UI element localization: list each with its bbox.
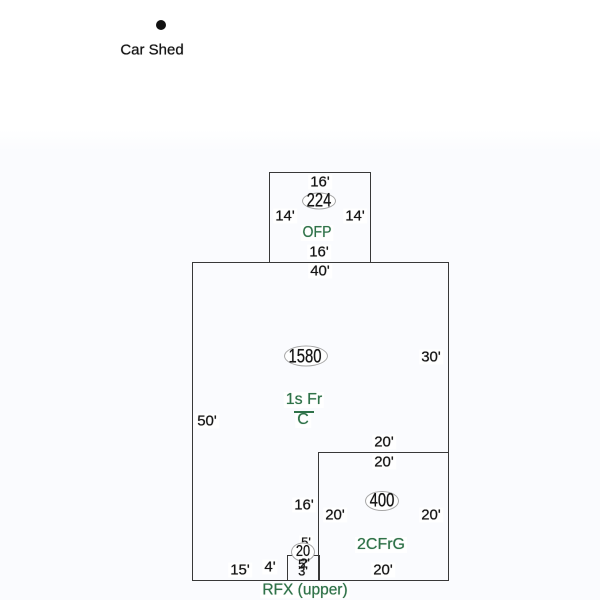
label 1580 xyxy=(289,348,322,367)
fraction line xyxy=(294,411,314,413)
label 30' xyxy=(419,350,443,365)
label 2CFrG xyxy=(355,537,407,553)
oval 1580 xyxy=(284,346,328,367)
label 14' right xyxy=(343,209,367,224)
label 5' above small rect xyxy=(299,536,313,549)
car shed dot xyxy=(156,20,166,30)
label 3' inside small rect xyxy=(298,565,308,578)
label C xyxy=(295,412,311,428)
label 20' garage right xyxy=(419,508,443,523)
label 20' inside garage left xyxy=(323,508,347,523)
label 50' xyxy=(195,414,219,429)
label 20' above garage xyxy=(372,435,396,450)
oval 224 xyxy=(302,193,336,210)
label 5' inside small rect xyxy=(298,558,308,571)
rect OFP porch xyxy=(269,172,371,263)
rect RFX small xyxy=(287,555,320,581)
label 224 xyxy=(307,192,332,211)
label OFP xyxy=(301,225,333,241)
label 40' xyxy=(308,264,332,279)
label 400 xyxy=(370,492,395,511)
label RFX (upper) xyxy=(260,582,349,598)
label 4' xyxy=(262,560,277,575)
rect garage 2CFrG xyxy=(318,452,449,581)
oval 400 xyxy=(365,491,399,511)
oval 20 xyxy=(291,543,315,562)
label 14' left xyxy=(273,209,297,224)
label 1s Fr xyxy=(284,392,324,408)
label 2' inside small rect xyxy=(300,557,310,570)
label 16' left of garage xyxy=(292,498,316,513)
label 15' xyxy=(228,563,252,578)
label 16' OFP top xyxy=(308,175,332,190)
label 16' OFP bottom xyxy=(307,245,331,260)
label 20' bottom xyxy=(371,563,395,578)
rect main 1s Fr xyxy=(192,262,449,581)
label Car Shed xyxy=(118,43,185,58)
label 20 xyxy=(296,544,310,560)
background panel xyxy=(0,130,600,600)
label 20' below garage top xyxy=(372,455,396,470)
